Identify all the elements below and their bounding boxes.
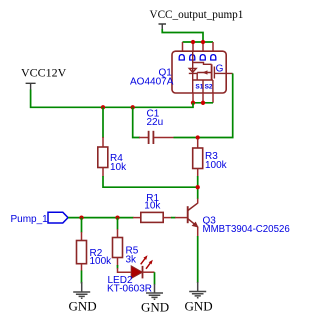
- svg-text:10k: 10k: [110, 162, 127, 173]
- capacitor C1: [139, 131, 174, 144]
- wire source pin bus: [193, 102, 213, 104]
- LED2 cathode lead: [143, 271, 155, 273]
- svg-text:GND: GND: [185, 299, 213, 314]
- junction dot R5 top: [115, 215, 119, 219]
- pin S3: [212, 93, 214, 103]
- collector diagonal: [188, 203, 198, 210]
- LED2 cathode bar: [142, 266, 144, 279]
- junction dot drain bus left: [191, 40, 195, 44]
- emitter arrow head: [192, 222, 199, 228]
- pin name D2 glyph: [189, 55, 195, 60]
- junction dot source left: [191, 101, 195, 105]
- ground GND1: [73, 282, 90, 298]
- svg-text:10k: 10k: [144, 201, 161, 212]
- power flag VCC12V: [26, 83, 36, 90]
- pin D1: [182, 42, 184, 52]
- wire R1 to base: [171, 217, 176, 219]
- wire port to base rail: [68, 217, 134, 219]
- pin name D4 glyph: [210, 55, 216, 60]
- ground GND3: [189, 282, 206, 298]
- resistor R3: [193, 139, 203, 177]
- junction dot R4 top: [101, 105, 105, 109]
- svg-text:S2: S2: [205, 83, 213, 90]
- base bar: [187, 206, 189, 223]
- wire R2 branch: [81, 218, 83, 233]
- svg-text:S1: S1: [195, 83, 203, 90]
- resistor R5: [113, 229, 123, 267]
- svg-text:3k: 3k: [126, 254, 138, 265]
- emitter diagonal: [188, 219, 197, 227]
- gate bar: [213, 67, 215, 79]
- svg-text:GND: GND: [141, 300, 169, 315]
- pin name D1 glyph: [179, 55, 185, 60]
- arrow stub: [197, 73, 211, 81]
- svg-text:VCC_output_pump1: VCC_output_pump1: [150, 9, 244, 21]
- wire VCC12V rail: [31, 90, 193, 108]
- pin D4: [212, 42, 214, 52]
- svg-text:100k: 100k: [90, 256, 113, 267]
- LED2 light arrow 1: [141, 255, 153, 269]
- wire VCC_output_pump1 to Q1 drains: [162, 29, 203, 42]
- svg-text:KT-0603R: KT-0603R: [107, 284, 152, 295]
- resistor R1: [133, 212, 172, 222]
- LED2 diode: [131, 266, 142, 279]
- junction dot source right: [201, 101, 205, 105]
- arrow head pmos: [202, 70, 207, 74]
- port Pump_1 shape: [48, 212, 68, 223]
- gate pin line: [214, 72, 232, 74]
- wire R4 branch: [102, 107, 104, 138]
- collector lead: [197, 199, 199, 204]
- wire drain pin bus: [183, 41, 214, 43]
- svg-text:22u: 22u: [147, 117, 164, 128]
- pin D3: [202, 42, 204, 52]
- junction dot R2 top: [79, 215, 83, 219]
- transistor Q3: [175, 199, 198, 237]
- body diode: [189, 68, 197, 73]
- svg-text:GND: GND: [69, 299, 97, 314]
- transistor Q1 package body: [172, 51, 226, 93]
- pin name D3 glyph: [200, 55, 206, 60]
- junction dot gate node: [196, 135, 200, 139]
- svg-text:100k: 100k: [205, 160, 228, 171]
- pin S1: [192, 93, 194, 103]
- wire R3 bottom: [197, 176, 199, 199]
- wire gate node to G pin: [198, 73, 233, 137]
- wire R5 branch: [117, 218, 119, 230]
- svg-text:Pump_1: Pump_1: [11, 214, 49, 225]
- wire R4 bottom to collector node: [103, 176, 198, 187]
- pin S2: [202, 93, 204, 103]
- ground GND2: [146, 284, 163, 299]
- channel bar: [211, 64, 213, 80]
- svg-text:MMBT3904-C20526: MMBT3904-C20526: [203, 224, 290, 235]
- resistor R2: [77, 232, 87, 271]
- junction dot C1 branch: [131, 105, 135, 109]
- wire C1 branch: [133, 107, 140, 137]
- junction dot collector node: [196, 185, 200, 189]
- resistor R4: [98, 137, 108, 177]
- svg-text:AO4407A: AO4407A: [130, 77, 174, 88]
- pin D2: [192, 42, 194, 52]
- source pin drops inside: [203, 80, 213, 93]
- base lead: [175, 217, 187, 219]
- wire emitter to gnd: [197, 236, 199, 283]
- wire R5 to LED anode: [117, 265, 119, 269]
- power flag VCC_output_pump1: [159, 24, 167, 30]
- svg-text:G: G: [216, 63, 224, 74]
- wire R2 to gnd: [81, 271, 83, 284]
- source stub: [193, 79, 213, 81]
- svg-text:VCC12V: VCC12V: [21, 66, 67, 80]
- drain-source left line: [192, 52, 194, 93]
- transistor Q1 internal mosfet: [189, 52, 233, 93]
- junction dot drain bus right: [201, 40, 205, 44]
- drain link: [193, 63, 212, 65]
- wire LED cathode to gnd: [154, 272, 156, 284]
- wire C1 to gate node: [174, 137, 198, 139]
- emitter lead: [197, 227, 199, 237]
